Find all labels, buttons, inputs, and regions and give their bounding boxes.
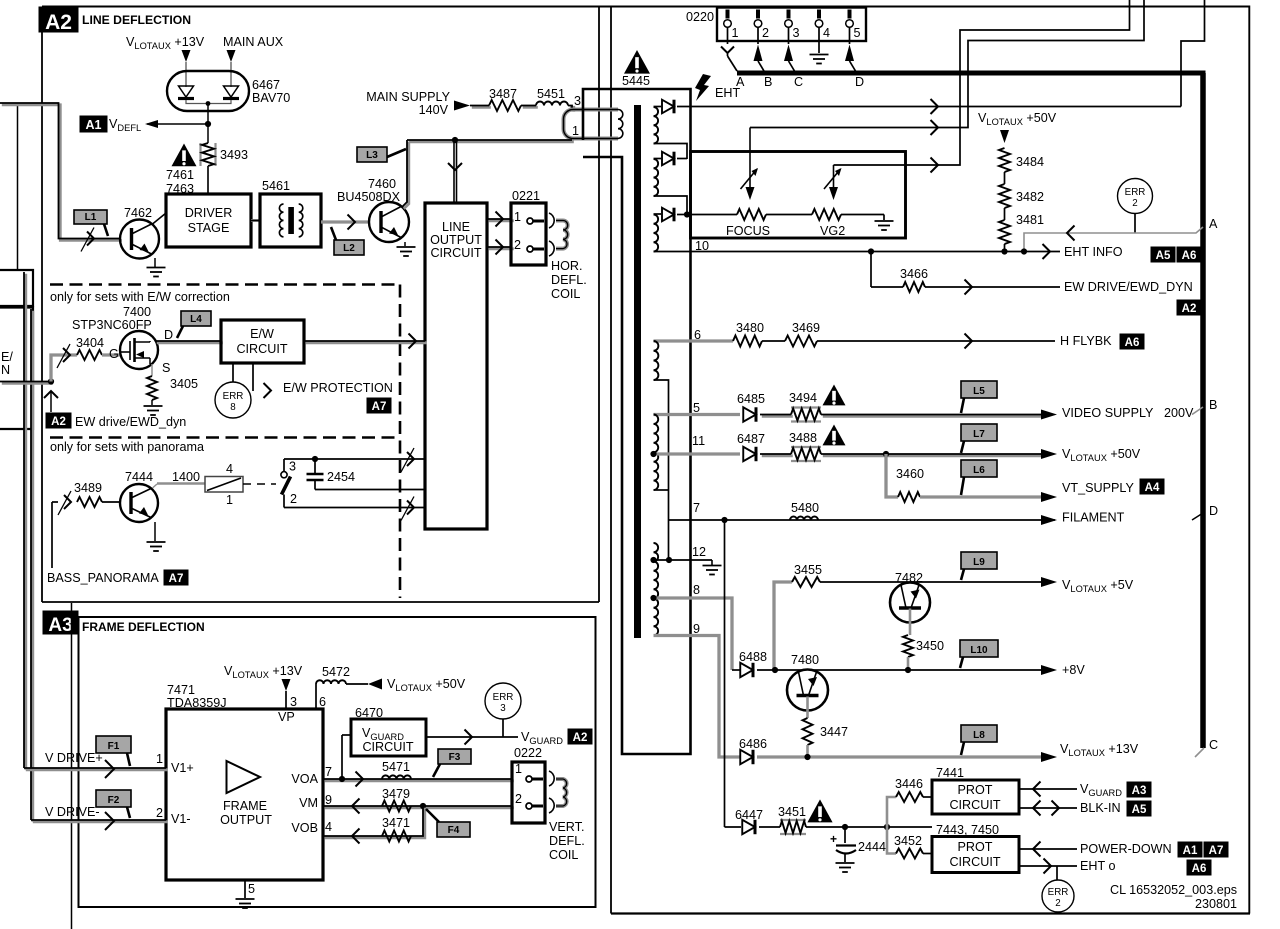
svg-text:A7: A7: [169, 573, 184, 585]
svg-text:A6: A6: [1125, 337, 1140, 349]
wire driver to transformer 5461: [251, 219, 260, 222]
svg-text:C: C: [1209, 738, 1218, 752]
wire line output to 0221 pin2: [489, 247, 514, 250]
emitter ground 7444: [154, 522, 156, 541]
svg-text:CIRCUIT: CIRCUIT: [236, 342, 287, 356]
transistor 7482: [890, 583, 930, 623]
svg-text:L10: L10: [970, 645, 988, 656]
wire 3451 to prot circuits: [806, 826, 932, 828]
svg-text:A4: A4: [1145, 482, 1160, 494]
pin 6 wire to 5472: [315, 684, 317, 709]
ground below 3405: [151, 400, 153, 405]
EHT diode 2: [662, 152, 674, 166]
svg-text:FILAMENT: FILAMENT: [1062, 511, 1125, 525]
+5V arrow: [1041, 577, 1057, 587]
svg-text:3: 3: [500, 703, 506, 714]
vlotaux +50V wire: [823, 454, 1044, 457]
svg-text:7444: 7444: [125, 470, 153, 484]
resistor 3460: [898, 492, 920, 502]
resistor 3452: [896, 849, 923, 859]
secondary winding F: [654, 543, 659, 636]
A5 A6 tags: [1151, 247, 1175, 262]
svg-text:PROT: PROT: [958, 840, 993, 854]
svg-text:HOR.: HOR.: [551, 259, 582, 273]
wire bass panorama up: [51, 502, 53, 568]
filament bus link: [1192, 513, 1203, 520]
wire L1 input from left: [2, 105, 122, 241]
svg-text:5: 5: [854, 26, 861, 40]
svg-text:D: D: [1209, 504, 1218, 518]
switch lever: [282, 477, 291, 495]
safety resistor 3488: [791, 446, 821, 448]
svg-text:6487: 6487: [737, 432, 765, 446]
opamp triangle symbol: [227, 761, 261, 793]
wire focus to vg2: [766, 214, 812, 216]
svg-text:V1+: V1+: [171, 761, 194, 775]
wire 3404 to gate: [102, 353, 121, 356]
svg-text:VERT.: VERT.: [549, 820, 584, 834]
pin4 ground: [818, 44, 820, 53]
emitter ground 7460: [404, 242, 406, 246]
svg-text:CIRCUIT: CIRCUIT: [949, 798, 1000, 812]
svg-text:L2: L2: [343, 243, 355, 254]
svg-text:V DRIVE+: V DRIVE+: [45, 751, 103, 765]
A2 tag vguard: [568, 729, 592, 744]
svg-text:POWER-DOWN: POWER-DOWN: [1080, 842, 1172, 856]
warning triangle 7461: [172, 144, 197, 167]
transistor 7480: [787, 670, 828, 711]
svg-text:7461: 7461: [166, 168, 194, 182]
svg-text:200V: 200V: [1164, 406, 1194, 420]
svg-text:6467: 6467: [252, 78, 280, 92]
wire 3493 to driver stage: [207, 166, 209, 194]
svg-text:+8V: +8V: [1062, 663, 1085, 677]
svg-text:A2: A2: [573, 732, 588, 744]
svg-text:7480: 7480: [791, 653, 819, 667]
svg-text:7400: 7400: [123, 305, 151, 319]
svg-text:2: 2: [156, 806, 163, 820]
arrow to A1 VDEFL: [147, 123, 208, 125]
svg-text:DEFL.: DEFL.: [551, 273, 587, 287]
vertical deflection coil: [556, 779, 567, 806]
connector 0221 box: [511, 203, 546, 265]
svg-text:2: 2: [290, 492, 297, 506]
right box bottom edge: [611, 912, 1250, 914]
resistor 3489: [77, 497, 102, 507]
flag L4: [181, 311, 211, 326]
svg-text:V DRIVE-: V DRIVE-: [45, 805, 100, 819]
svg-text:3452: 3452: [894, 834, 922, 848]
svg-text:A: A: [1209, 217, 1218, 231]
svg-text:EHT o: EHT o: [1080, 859, 1115, 873]
node cap 2454: [312, 456, 318, 462]
winding D bottom connection down to filament tap: [654, 380, 669, 560]
error code 3: [485, 683, 521, 719]
wire 6488 to +8V output: [757, 669, 1042, 671]
A1 A7 tags: [1178, 842, 1202, 857]
svg-text:CL 16532052_003.eps: CL 16532052_003.eps: [1110, 883, 1237, 897]
H flybk wire: [817, 340, 1055, 342]
wire EW box to line output: [306, 341, 427, 344]
pin 8 wire: [654, 598, 733, 670]
svg-text:A3: A3: [1132, 785, 1147, 797]
flag F1: [96, 736, 131, 753]
svg-text:3: 3: [289, 460, 296, 474]
transistor 7460: [369, 202, 409, 242]
wire up to gate resistor: [51, 355, 77, 382]
svg-text:2444: 2444: [858, 840, 886, 854]
svg-text:PROT: PROT: [958, 783, 993, 797]
wire V drive- to pin 2: [33, 820, 168, 823]
supply arrow down into diode 1: [182, 50, 191, 62]
wire V drive+ from left page: [24, 274, 27, 770]
wire filament junction down to 6447: [724, 520, 726, 827]
secondary winding D: [654, 341, 659, 380]
collector wire 7460 up to line: [404, 142, 409, 209]
inductor 5472: [316, 680, 346, 684]
collector wire 7462 to driver box: [153, 213, 167, 224]
A7 tag bass panorama: [164, 570, 188, 585]
svg-text:3488: 3488: [789, 431, 817, 445]
wire vguard box to VOA node: [342, 734, 351, 736]
wire node to resistor 3493: [207, 124, 209, 143]
svg-text:BASS_PANORAMA: BASS_PANORAMA: [47, 571, 159, 585]
A5 tag blk-in: [1127, 801, 1151, 816]
0220 pin 3: [787, 10, 791, 19]
resistor 3455: [774, 582, 792, 670]
focus wiper: [749, 128, 751, 188]
resistor 3481: [999, 220, 1010, 244]
svg-text:VOA: VOA: [291, 772, 318, 786]
svg-text:3484: 3484: [1016, 155, 1044, 169]
connector 0222 box: [512, 762, 545, 823]
svg-text:F3: F3: [449, 752, 461, 763]
wire 3455 to +5V output: [820, 581, 1042, 583]
wire joining BAV70 cathodes: [186, 100, 231, 104]
0220 pin 5: [848, 10, 852, 19]
wire cap 2454 to line output: [315, 489, 425, 491]
+13V wire: [757, 755, 1042, 758]
flag L3: [357, 147, 387, 162]
winding A bottom step to diode2 cathode: [654, 144, 688, 160]
A7 tag EW protection: [367, 398, 391, 413]
warning triangle 3494: [823, 385, 846, 406]
wire line output to 0221 pin1: [489, 219, 514, 222]
svg-text:A2: A2: [1182, 303, 1197, 315]
svg-text:3489: 3489: [74, 481, 102, 495]
VM wire: [325, 806, 514, 809]
wire into BAV70 anode 2: [230, 62, 232, 87]
svg-text:3481: 3481: [1016, 213, 1044, 227]
svg-text:BLK-IN: BLK-IN: [1080, 801, 1121, 815]
V guard circuit box 6470: [351, 719, 426, 756]
flag L1: [74, 210, 107, 224]
A2 tag EW drive: [46, 413, 71, 428]
svg-text:4: 4: [823, 26, 830, 40]
svg-text:A6: A6: [1192, 863, 1207, 875]
safety resistor 3494: [791, 406, 821, 408]
secondary winding B: [654, 159, 659, 196]
svg-text:V1-: V1-: [171, 812, 191, 826]
left page partial box lower: [0, 308, 33, 430]
svg-text:OUTPUT: OUTPUT: [220, 813, 272, 827]
svg-text:FRAME: FRAME: [223, 799, 267, 813]
svg-text:3450: 3450: [916, 639, 944, 653]
wire V drive- from left page: [31, 311, 34, 822]
inductor 5471: [382, 775, 411, 779]
EHT info A wire from bus: [1024, 227, 1203, 252]
svg-text:2: 2: [515, 792, 522, 806]
VOB wire: [325, 808, 425, 838]
IC 7471 frame output box: [166, 709, 323, 880]
svg-text:3480: 3480: [736, 321, 764, 335]
+13V arrow: [1041, 752, 1057, 762]
svg-text:only for sets with E/W correct: only for sets with E/W correction: [50, 290, 230, 304]
wire focus wiper to right: [750, 0, 1144, 128]
svg-text:7: 7: [693, 501, 700, 515]
flag F4: [437, 822, 470, 837]
A3 section tag: [43, 611, 78, 634]
filament arrow: [1041, 515, 1057, 525]
svg-text:EW drive/EWD_dyn: EW drive/EWD_dyn: [75, 415, 186, 429]
vlotaux50 wire gray left: [654, 452, 741, 455]
svg-text:1400: 1400: [172, 470, 200, 484]
supply arrow down into diode 2: [227, 50, 236, 62]
svg-text:L9: L9: [973, 557, 985, 568]
svg-text:N: N: [1, 363, 10, 377]
svg-text:FOCUS: FOCUS: [726, 224, 770, 238]
svg-text:A3: A3: [48, 615, 72, 636]
flag L6: [961, 460, 997, 477]
svg-text:B: B: [1209, 398, 1217, 412]
wire 7460 collector to flyback pin 1: [409, 140, 574, 143]
svg-text:11: 11: [692, 434, 705, 448]
wire 5461 to 7460 base: [321, 220, 370, 223]
power-down wire: [1019, 848, 1077, 850]
error code 2 bottom: [1056, 866, 1058, 880]
svg-text:5445: 5445: [622, 74, 650, 88]
svg-text:only for sets with panorama: only for sets with panorama: [50, 440, 204, 454]
svg-text:230801: 230801: [1195, 897, 1237, 911]
svg-text:E/: E/: [1, 350, 13, 364]
vg2 potentiometer: [812, 209, 841, 220]
pin 9 wire: [654, 636, 742, 758]
secondary winding E: [654, 415, 659, 491]
wire diode3 to focus pot: [687, 214, 737, 216]
svg-text:5: 5: [248, 882, 255, 896]
collector wire 7444 to relay: [153, 484, 158, 488]
error code 2 right: [1118, 179, 1153, 214]
wire vg2 to ground: [841, 214, 884, 216]
svg-text:VM: VM: [299, 796, 318, 810]
svg-text:6: 6: [319, 695, 326, 709]
focus potentiometer: [737, 209, 766, 220]
video supply bus link: [1192, 407, 1203, 415]
svg-text:COIL: COIL: [549, 848, 578, 862]
safety resistor 3451: [759, 826, 780, 828]
0220 pin 4: [817, 10, 821, 19]
0220 pin 1: [726, 10, 730, 19]
svg-text:F2: F2: [108, 795, 120, 806]
direction arrow bass wire: [64, 495, 71, 509]
warning triangle 3451: [807, 799, 832, 822]
svg-text:5471: 5471: [382, 760, 410, 774]
EHT diode 1: [662, 100, 674, 114]
svg-text:VT_SUPPLY: VT_SUPPLY: [1062, 481, 1134, 495]
branch down to 3452: [887, 827, 896, 854]
svg-text:5480: 5480: [791, 501, 819, 515]
prot circuit box 7441: [932, 780, 1019, 814]
svg-text:DRIVER: DRIVER: [185, 206, 233, 220]
thick bus vertical: [1200, 73, 1206, 748]
svg-text:STAGE: STAGE: [188, 221, 230, 235]
svg-text:FRAME DEFLECTION: FRAME DEFLECTION: [82, 620, 205, 634]
resistor 3469: [785, 336, 817, 347]
capacitor 2454: [314, 459, 316, 474]
svg-text:8: 8: [230, 402, 236, 413]
svg-text:1: 1: [515, 762, 522, 776]
base resistor 3450: [909, 609, 912, 636]
svg-text:6488: 6488: [739, 650, 767, 664]
diode1 wire right: [677, 106, 1181, 108]
svg-text:+: +: [830, 832, 837, 846]
svg-text:F4: F4: [448, 825, 460, 836]
svg-text:A2: A2: [45, 11, 72, 34]
svg-text:3405: 3405: [170, 377, 198, 391]
dual diode 6467 BAV70 package outline: [167, 71, 249, 111]
svg-text:7471: 7471: [167, 683, 195, 697]
v guard input wire: [1019, 788, 1077, 790]
svg-text:ERR: ERR: [223, 391, 244, 402]
pin1 chevron down + wire to bus A: [721, 47, 734, 54]
dashed box E/W correction bottom: [50, 436, 400, 439]
svg-text:3466: 3466: [900, 267, 928, 281]
resistor 3446: [896, 792, 923, 802]
VOA wire: [325, 779, 514, 782]
A3 tag prot: [1127, 782, 1151, 797]
diode D2 of BAV70: [224, 86, 239, 97]
dashed box right edge: [399, 285, 402, 599]
svg-text:VOB: VOB: [291, 821, 318, 835]
branch up to 3446: [887, 797, 896, 827]
winding A top wire to diode 6515: [654, 106, 662, 108]
video supply wire gray left: [654, 413, 741, 416]
svg-text:7441: 7441: [936, 766, 964, 780]
svg-text:COIL: COIL: [551, 287, 580, 301]
svg-text:3: 3: [290, 695, 297, 709]
svg-text:7: 7: [325, 765, 332, 779]
svg-text:5451: 5451: [537, 87, 565, 101]
svg-text:VP: VP: [278, 710, 295, 724]
0222 mating arcs: [549, 771, 554, 786]
svg-text:S: S: [162, 361, 170, 375]
horizontal deflection coil: [556, 221, 568, 249]
svg-text:L7: L7: [973, 429, 985, 440]
flyback core bar: [634, 105, 641, 638]
svg-text:EHT INFO: EHT INFO: [1064, 245, 1123, 259]
winding B bottom step to diode3 cathode: [654, 196, 688, 215]
svg-text:F1: F1: [108, 741, 120, 752]
EHT flash symbol: [695, 74, 711, 101]
A2 box left edge: [41, 7, 43, 603]
filament wire: [669, 519, 1055, 521]
svg-text:CIRCUIT: CIRCUIT: [949, 855, 1000, 869]
svg-text:B: B: [764, 75, 772, 89]
svg-text:6447: 6447: [735, 808, 763, 822]
dashed box E/W correction top: [50, 283, 400, 286]
safety resistor 3493: [199, 143, 201, 166]
svg-text:A6: A6: [1182, 250, 1197, 262]
A1 tag: [80, 116, 107, 132]
flag L7: [961, 424, 997, 441]
+13V bus link: [1195, 748, 1204, 757]
wire V drive+ to pin 1: [26, 768, 168, 771]
0220 pin 2: [756, 10, 760, 19]
svg-text:ERR: ERR: [493, 692, 514, 703]
node EW drive: [48, 378, 54, 384]
svg-text:L3: L3: [366, 150, 378, 161]
svg-text:0221: 0221: [512, 189, 540, 203]
svg-text:LINE: LINE: [442, 220, 470, 234]
wire EW box to ERR8: [232, 363, 234, 382]
svg-text:MAIN AUX: MAIN AUX: [223, 35, 284, 49]
A6 tag EHT o: [1187, 860, 1211, 875]
relay 1400 box: [205, 477, 243, 493]
wire EW input from left: [2, 382, 53, 385]
capacitor 2444 electrolytic: [844, 827, 846, 843]
line output circuit box: [425, 203, 487, 529]
svg-text:3479: 3479: [382, 787, 410, 801]
vg2 wiper: [833, 165, 835, 187]
main supply arrow: [454, 101, 470, 111]
node VM VOB join: [420, 803, 426, 809]
svg-text:VIDEO SUPPLY: VIDEO SUPPLY: [1062, 406, 1154, 420]
svg-text:L6: L6: [973, 465, 985, 476]
resistor 3479: [382, 801, 411, 812]
svg-text:L8: L8: [973, 730, 985, 741]
svg-text:6486: 6486: [739, 737, 767, 751]
svg-text:3: 3: [574, 94, 581, 108]
diode1 wire up to top: [1181, 0, 1205, 107]
svg-text:A7: A7: [1209, 845, 1224, 857]
svg-text:G: G: [109, 347, 119, 361]
svg-text:1: 1: [732, 26, 739, 40]
resistor 3466: [903, 282, 925, 292]
svg-text:4: 4: [226, 462, 233, 476]
svg-text:7443, 7450: 7443, 7450: [936, 823, 999, 837]
A2 section tag: [39, 7, 78, 32]
A2 tag EW drive right: [1177, 300, 1201, 315]
transistor 7444: [120, 484, 158, 522]
inductor 5451: [536, 102, 568, 106]
wire down to line output circuit: [453, 140, 455, 203]
A2 box bottom edge: [42, 601, 599, 603]
EW drive wire: [925, 286, 1060, 288]
svg-text:3447: 3447: [820, 725, 848, 739]
direction arrow on L1 wire: [87, 232, 94, 246]
VT supply wire: [920, 495, 1042, 498]
svg-text:BAV70: BAV70: [252, 91, 290, 105]
svg-text:A1: A1: [1183, 845, 1198, 857]
svg-text:6485: 6485: [737, 392, 765, 406]
switch contact 3: [281, 472, 287, 478]
direction arrow gate wire: [63, 348, 70, 362]
svg-text:MAIN SUPPLY: MAIN SUPPLY: [366, 90, 450, 104]
svg-text:1: 1: [572, 124, 579, 138]
wire branch left page down to box: [17, 103, 19, 269]
resistor 3480: [733, 336, 762, 347]
secondary winding A: [654, 107, 659, 144]
